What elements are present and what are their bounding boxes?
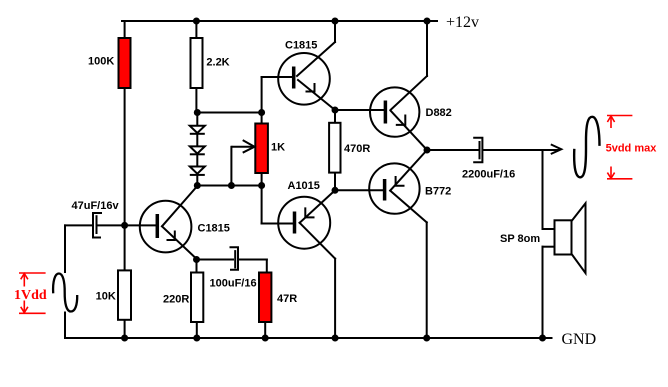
wire output vertical lower [542,247,544,338]
wire diode column segment 4 [196,175,198,186]
transistor Q5 B772 [369,163,419,213]
wire D882 emitter diagonal [391,111,428,151]
wire pot wiper vertical [230,147,232,186]
svg-text:47R: 47R [277,293,297,305]
input level marks 1Vdd [19,273,46,313]
svg-text:100K: 100K [88,56,114,68]
wire node link top [197,112,262,114]
svg-text:2.2K: 2.2K [206,57,229,69]
svg-text:B772: B772 [425,186,451,198]
junction node dots [121,18,546,342]
diode D1 [190,126,205,134]
wire C2 to 47R [240,259,267,261]
svg-text:SP 8om: SP 8om [500,233,540,245]
wire B772 collector vertical [426,222,428,338]
wire A1015 emitter diagonal [300,190,335,223]
svg-text:C1815: C1815 [285,39,317,51]
wire output vertical upper [542,150,544,229]
wire 220R bottom stub [196,322,198,338]
svg-text:470R: 470R [344,143,370,155]
transistor Q1 C1815 top [278,53,330,105]
resistor 10K [118,270,131,319]
wire 100K top stub [124,21,126,38]
resistor 470R [329,123,340,173]
wire A1015 collector diagonal [300,223,336,259]
svg-text:1K: 1K [271,142,285,154]
wire A1015 collector vertical [334,259,336,338]
wire Q1 collector diagonal [297,42,335,76]
potentiometer 1K [255,124,268,174]
wire D882 collector diagonal [391,76,428,110]
wire emitter node to C2 [197,259,234,261]
wire C1 right to base [98,224,156,226]
transistor Q2 C1815 left [140,201,192,253]
wire B772 emitter diagonal [390,150,427,191]
wire 1K bottom to A1015 base [261,173,263,224]
wire 470R bottom stub [334,173,336,191]
svg-text:10K: 10K [96,291,116,303]
capacitor C1 47uF/16v [93,213,102,238]
wire output node to C3 [427,149,478,151]
svg-text:5vdd max: 5vdd max [606,142,658,154]
wire 47R bottom stub [264,322,266,338]
wire diode column segment 2 [196,134,198,147]
wire Q1 base vertical [261,77,263,113]
potentiometer wiper arrow [231,140,254,153]
wire Q2 collector diagonal [162,186,197,226]
wire 470R top stub [334,110,336,123]
wire A1015 base lead [262,223,293,225]
wire diode column segment 1 [196,113,198,127]
transistor Q3 A1015 [278,197,330,249]
resistor 2.2K [191,38,203,88]
wire 2.2K top stub [195,21,197,38]
diode D2 [190,146,205,154]
svg-text:1Vdd: 1Vdd [14,288,47,303]
svg-text:+12v: +12v [446,14,479,31]
capacitor C3 2200uF/16 [473,138,482,162]
wire input vertical upper [64,225,66,272]
wire 1K top stub [261,113,263,124]
transistor Q4 D882 [370,87,419,136]
wire B772 collector diagonal [390,191,427,223]
svg-text:D882: D882 [426,107,452,119]
svg-text:2200uF/16: 2200uF/16 [462,169,515,181]
capacitor C2 100uF/16 [230,247,239,269]
svg-text:47uF/16v: 47uF/16v [72,200,120,212]
wire node to B772 base [335,189,383,191]
wire GND stub [543,337,552,339]
wire 100K to 10K column [124,88,126,270]
wire node to D882 base [335,109,384,111]
wire C3 to output arrow [484,149,559,151]
resistor 220R [191,273,203,323]
wire speaker stub bottom [543,246,555,248]
wire 10K bottom stub [124,320,126,338]
wire Q2 emitter diagonal [162,226,197,259]
svg-text:C1815: C1815 [198,223,230,235]
wire Q1 collector vertical [334,21,336,42]
speaker SP [555,203,586,273]
svg-text:GND: GND [562,331,597,348]
wire Q1 emitter diagonal [298,80,335,110]
wire node link bottom [197,185,262,187]
resistor 100K [119,38,131,88]
wire diode column segment 3 [196,154,198,166]
diode D3 [190,167,205,175]
wire Q1 base lead [262,76,292,78]
output level marks 5vdd [607,116,632,179]
input sine symbol [53,274,77,312]
wire top +12v rail [122,20,437,22]
wire D882 collector vertical [426,21,428,76]
wire 2.2K bottom stub [195,88,197,113]
wire input to C1 left [65,224,92,226]
wire 47R top stub [266,260,268,273]
output arrow [551,144,562,154]
output sine symbol [574,117,599,178]
wire speaker stub top [543,228,555,230]
wire 220R top stub [196,260,198,273]
wire bottom ground rail [65,337,543,339]
wire input vertical lower [64,313,66,339]
svg-text:A1015: A1015 [288,180,320,192]
svg-text:220R: 220R [163,294,189,306]
resistor 47R [259,273,271,323]
svg-text:100uF/16: 100uF/16 [210,278,257,290]
